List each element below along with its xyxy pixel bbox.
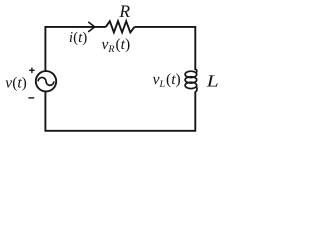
wire: top-right segment with right-upper vertical xyxy=(135,27,196,70)
wire: right-lower, bottom, left-lower segments xyxy=(45,91,195,130)
minus sign xyxy=(28,97,34,99)
sine wave inside source xyxy=(38,77,54,85)
svg-text:v(t): v(t) xyxy=(5,74,27,91)
voltage source circle xyxy=(36,71,56,91)
inductor L coil xyxy=(185,69,197,92)
current arrow head i(t) xyxy=(89,22,95,31)
svg-text:i(t): i(t) xyxy=(69,30,87,46)
resistor R xyxy=(106,21,135,32)
svg-text:vL(t): vL(t) xyxy=(153,71,181,90)
svg-text:L: L xyxy=(205,71,218,90)
plus sign xyxy=(29,68,34,73)
svg-text:R: R xyxy=(118,1,130,21)
svg-text:vR(t): vR(t) xyxy=(102,36,131,55)
wire: top-left segment with left-upper vertical xyxy=(45,27,105,71)
